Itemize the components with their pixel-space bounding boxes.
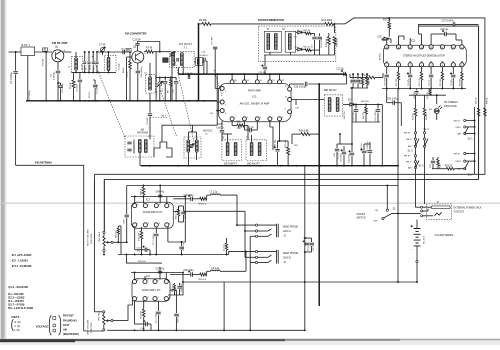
junction xyxy=(134,329,136,331)
svg-text:R18 10k: R18 10k xyxy=(362,75,371,77)
svg-text:R43 1.8: R43 1.8 xyxy=(172,285,174,292)
capacitor C20 xyxy=(305,82,307,86)
wire xyxy=(269,121,271,127)
svg-text:Q1.3 --2SA1008: Q1.3 --2SA1008 xyxy=(8,285,28,289)
wire xyxy=(139,153,141,166)
svg-text:C31 47µ: C31 47µ xyxy=(408,78,410,86)
capacitor C27 xyxy=(453,22,455,26)
junction xyxy=(158,329,160,331)
mid line xyxy=(71,71,116,73)
wire xyxy=(223,282,225,330)
svg-text:C14 10P: C14 10P xyxy=(147,117,149,125)
svg-text:FM D: FM D xyxy=(406,139,412,141)
volume VR1 xyxy=(103,231,105,233)
svg-text:S1-4: S1-4 xyxy=(424,128,430,131)
svg-text:ON/OFF: ON/OFF xyxy=(357,214,366,216)
vertical audio input xyxy=(126,186,128,215)
junction xyxy=(108,100,110,102)
resistor R26 xyxy=(365,104,367,107)
wire xyxy=(9,51,22,53)
resistor R11 xyxy=(305,32,312,35)
junction xyxy=(188,165,190,167)
svg-text:0.001µ: 0.001µ xyxy=(216,128,224,130)
IC2 pin top 11 xyxy=(440,45,444,49)
svg-text:C26 1µ: C26 1µ xyxy=(440,28,448,31)
vertical from loopB xyxy=(103,179,105,230)
resistor R10 xyxy=(325,22,334,25)
svg-text:R36 100: R36 100 xyxy=(138,232,140,241)
capacitor C46 xyxy=(336,144,338,148)
switch S1-1 contacts xyxy=(464,119,466,121)
wire xyxy=(236,195,238,225)
capacitor C51 xyxy=(155,227,157,233)
IC1 pin left 3 xyxy=(220,109,224,113)
svg-text:FM CONVERTER: FM CONVERTER xyxy=(125,32,147,36)
resistor R06 xyxy=(237,124,244,127)
svg-text:R24 390: R24 390 xyxy=(460,79,462,86)
capacitor C59 xyxy=(191,272,193,276)
IC1 pin top 13 xyxy=(268,80,272,84)
wire S1 common xyxy=(474,107,476,174)
svg-text:C51 0.0056µ: C51 0.0056µ xyxy=(153,233,155,245)
svg-text:C8 7P: C8 7P xyxy=(90,64,92,70)
junction xyxy=(280,165,282,167)
svg-text:C47 47µ: C47 47µ xyxy=(361,143,363,151)
junction xyxy=(441,88,443,90)
svg-text:R41 100: R41 100 xyxy=(141,310,143,319)
junction xyxy=(94,100,96,102)
IC4 pin top 7 xyxy=(143,280,147,284)
heavy vertical R9 drop xyxy=(198,24,200,101)
bandpass filter B.P.F.1 xyxy=(21,47,35,56)
junction xyxy=(159,100,161,102)
IC3 pin top 5 xyxy=(165,204,169,208)
wire xyxy=(63,51,72,53)
svg-text:L9 2.2µ: L9 2.2µ xyxy=(223,243,225,251)
capacitor C48 xyxy=(158,195,162,197)
svg-text:R42 560: R42 560 xyxy=(116,230,118,238)
IC3 pin top 8 xyxy=(133,204,137,208)
capacitor C45 xyxy=(369,142,371,150)
wire xyxy=(84,330,104,332)
svg-text:AM: AM xyxy=(408,167,411,170)
svg-text:LEFT VOLUME: LEFT VOLUME xyxy=(88,319,90,335)
wire xyxy=(245,252,247,272)
svg-text:FM RF AMP: FM RF AMP xyxy=(52,41,68,45)
capacitor C28 xyxy=(221,121,223,130)
capacitor C8 xyxy=(92,52,94,61)
IC4 pin bottom 2 xyxy=(143,297,147,301)
junction xyxy=(155,100,157,102)
junction xyxy=(88,100,90,102)
svg-text:10: 10 xyxy=(452,47,454,49)
junction xyxy=(386,88,388,90)
svg-text:D1---KB-905: D1---KB-905 xyxy=(8,292,24,296)
capacitor C15 xyxy=(188,75,190,79)
resistor R31 xyxy=(415,95,417,108)
junction xyxy=(155,254,157,256)
diode D3 xyxy=(350,103,354,106)
svg-text:C9 0.039µ: C9 0.039µ xyxy=(97,84,99,94)
svg-text:AM OSC ,MIXER ,IF AMP: AM OSC ,MIXER ,IF AMP xyxy=(240,102,270,106)
svg-text:0.015µ: 0.015µ xyxy=(338,152,340,159)
svg-text:(WHATEVER): (WHATEVER) xyxy=(63,333,79,336)
svg-text:CONTROL: CONTROL xyxy=(91,233,93,244)
IC2 pin top 9 xyxy=(460,45,464,49)
svg-text:R22 2.2k: R22 2.2k xyxy=(419,78,421,86)
wire xyxy=(166,197,168,204)
junction xyxy=(45,100,47,102)
junction xyxy=(149,100,151,102)
IC2 pin bottom 1 xyxy=(385,63,389,67)
svg-text:FM ST: FM ST xyxy=(454,120,461,122)
svg-text:R09 56k: R09 56k xyxy=(361,101,370,103)
wire xyxy=(346,73,347,75)
junction xyxy=(336,165,338,167)
svg-text:FM ANTENNA: FM ANTENNA xyxy=(35,161,52,165)
resistor R7 xyxy=(146,50,154,53)
svg-text:FM D: FM D xyxy=(456,127,462,129)
junction xyxy=(92,100,94,102)
junction xyxy=(57,100,59,102)
wire xyxy=(409,38,411,45)
svg-text:R38 5.6: R38 5.6 xyxy=(199,203,207,205)
svg-text:D2.3---1S953: D2.3---1S953 xyxy=(8,296,25,300)
svg-text:S1-1: S1-1 xyxy=(468,138,474,141)
svg-text:C4 7P: C4 7P xyxy=(81,64,83,70)
svg-text:S1-3: S1-3 xyxy=(408,150,414,153)
power jack plug xyxy=(431,206,450,209)
svg-text:R34 1k: R34 1k xyxy=(476,96,478,104)
transistor Q1 xyxy=(52,50,64,62)
IC3 body xyxy=(132,202,174,228)
resistor R30 xyxy=(143,186,145,188)
resistor R33b xyxy=(424,95,426,108)
junction xyxy=(188,100,190,102)
audio L ground bus xyxy=(107,329,305,331)
wire xyxy=(45,52,47,101)
capacitor C10 xyxy=(123,50,125,54)
capacitor C18 xyxy=(319,33,321,36)
svg-text:AM: AM xyxy=(408,145,411,148)
IC2 pin bottom 8 xyxy=(460,63,464,67)
svg-text:C56 0.1µ: C56 0.1µ xyxy=(313,242,315,251)
junction xyxy=(164,100,166,102)
IC1 pin bottom 4 xyxy=(230,117,234,121)
tuning gang dashed link xyxy=(214,70,222,96)
svg-text:3RD AM IFT: 3RD AM IFT xyxy=(324,89,338,92)
svg-text:C48 100µ: C48 100µ xyxy=(349,153,351,163)
svg-text:R5 100: R5 100 xyxy=(70,81,72,89)
IC1 pin right 11 xyxy=(288,87,292,91)
switch S2 xyxy=(386,209,388,211)
tuning gang dashed link xyxy=(160,88,177,136)
junction xyxy=(137,100,139,102)
wire xyxy=(27,56,29,101)
capacitor C36 33u xyxy=(277,141,279,149)
svg-text:EXTERNAL POWER JACK: EXTERNAL POWER JACK xyxy=(454,206,482,209)
IC4 body xyxy=(132,279,170,302)
wire xyxy=(131,272,183,274)
resistor R05 xyxy=(446,167,454,170)
junction xyxy=(409,88,411,90)
capacitor C55 xyxy=(305,243,309,245)
wire xyxy=(97,51,132,53)
resistor R38 xyxy=(200,197,207,200)
IC4 pin top 6 xyxy=(153,280,157,284)
capacitor C33 xyxy=(452,67,454,74)
svg-text:C20 0.001µ: C20 0.001µ xyxy=(294,86,307,88)
IC1 pin bottom 5 xyxy=(242,117,246,121)
svg-text:15: 15 xyxy=(397,47,399,49)
svg-text:R11 1k: R11 1k xyxy=(304,30,312,32)
IC4 pin bottom 4 xyxy=(164,297,168,301)
svg-text:R06: R06 xyxy=(236,122,241,124)
svg-text:JACK B: JACK B xyxy=(283,256,292,259)
inductor L4 box xyxy=(146,75,156,93)
resistor R17 xyxy=(388,18,390,22)
wire xyxy=(188,152,190,166)
transistor Q2 xyxy=(132,51,144,63)
svg-text:HEAD PHONE: HEAD PHONE xyxy=(283,225,299,228)
capacitor C58 xyxy=(175,296,177,313)
capacitor C31 xyxy=(409,67,411,74)
wire C20 line xyxy=(290,83,304,85)
svg-text:R28 6.8k: R28 6.8k xyxy=(299,130,309,133)
IC1 pin top 16 xyxy=(230,80,234,84)
junction xyxy=(343,165,345,167)
svg-text:C45 0.0033µ: C45 0.0033µ xyxy=(367,141,369,153)
junction xyxy=(304,165,306,167)
svg-text:R23 390: R23 390 xyxy=(440,79,442,86)
svg-text:R17 1k: R17 1k xyxy=(383,19,391,22)
IC2 pin top 12 xyxy=(429,45,433,49)
svg-text:OFF: OFF xyxy=(373,221,378,223)
svg-text:C?47: C?47 xyxy=(124,219,126,224)
capacitor C17t xyxy=(213,47,217,49)
capacitor C1 xyxy=(13,72,17,74)
junction xyxy=(141,254,143,256)
svg-text:AUDIO AMP L.CH: AUDIO AMP L.CH xyxy=(142,289,161,292)
wire xyxy=(345,18,354,24)
trimmer CT3 xyxy=(171,52,174,55)
resistor R20 xyxy=(366,74,368,78)
junction xyxy=(430,88,432,90)
main bus xyxy=(141,165,399,167)
svg-text:FM D: FM D xyxy=(406,162,412,164)
resistor R12 xyxy=(305,49,312,52)
svg-text:C59 100µ: C59 100µ xyxy=(184,270,195,272)
capacitor C49 xyxy=(191,197,193,201)
capacitor C63 xyxy=(179,283,181,286)
svg-text:C25: C25 xyxy=(378,37,383,39)
svg-text:FM D: FM D xyxy=(456,161,462,163)
switch S1-5 contacts xyxy=(414,155,416,157)
transformer T6 3rd AM IFT xyxy=(324,95,342,116)
feedback wire xyxy=(168,197,185,243)
IC2 pin bottom 3 xyxy=(408,63,412,67)
capacitor C43 xyxy=(432,157,434,160)
IC2 body xyxy=(383,45,466,66)
svg-text:RIGHT VOLUME: RIGHT VOLUME xyxy=(88,229,90,246)
capacitor C6b xyxy=(79,72,81,79)
volume VR2 xyxy=(103,311,105,313)
wire xyxy=(416,260,418,262)
IC1 pin top 15 xyxy=(242,80,246,84)
svg-text:R40 5.6: R40 5.6 xyxy=(199,279,207,281)
svg-text:4.5VOLTS: 4.5VOLTS xyxy=(454,212,465,214)
svg-text:C36 33µ: C36 33µ xyxy=(274,139,276,148)
svg-text:AUDIO AMP R.CH: AUDIO AMP R.CH xyxy=(143,211,163,214)
junction xyxy=(96,100,98,102)
wire xyxy=(131,51,133,53)
svg-text:L3 1µF: L3 1µF xyxy=(119,62,121,70)
resistor R41 xyxy=(143,301,145,309)
junction xyxy=(397,212,399,214)
wire xyxy=(94,311,102,313)
capacitor C56 xyxy=(311,238,313,242)
wire xyxy=(134,273,136,280)
AM shield outline xyxy=(162,125,215,142)
junction xyxy=(288,165,290,167)
svg-text:FM DISCRIMINATOR: FM DISCRIMINATOR xyxy=(258,18,284,22)
capacitor C16 xyxy=(204,58,206,62)
svg-text:FAST: FAST xyxy=(63,324,70,327)
svg-text:9: 9 xyxy=(461,47,462,49)
junction xyxy=(203,100,205,102)
AM bar antenna xyxy=(125,136,154,157)
capacitor C40 xyxy=(355,104,357,108)
capacitor C44 xyxy=(351,146,353,152)
inductor L8 xyxy=(211,270,221,271)
wire xyxy=(178,67,180,74)
junction xyxy=(304,281,306,283)
svg-text:C28: C28 xyxy=(217,124,222,126)
svg-text:R27 47k: R27 47k xyxy=(285,139,287,148)
wire VR1 wiper xyxy=(113,241,127,243)
switch S1-3 contacts xyxy=(414,132,416,134)
svg-text:L8 2.2µ: L8 2.2µ xyxy=(212,268,220,270)
capacitor C47 xyxy=(363,144,365,150)
switch S1-2 contacts xyxy=(464,152,466,154)
svg-text:0.0047µ: 0.0047µ xyxy=(54,71,56,80)
junction xyxy=(84,100,86,102)
svg-text:R33 1k: R33 1k xyxy=(426,112,428,120)
capacitor C5 xyxy=(60,83,62,85)
junction xyxy=(149,254,151,256)
battery B1 xyxy=(414,229,421,246)
svg-text:C1 0.001µ: C1 0.001µ xyxy=(9,71,13,84)
svg-text:R10 680k: R10 680k xyxy=(322,19,333,22)
resistor R18 xyxy=(350,77,366,79)
junction xyxy=(397,281,399,283)
junction xyxy=(363,165,365,167)
IC1 pin left 2 xyxy=(220,100,224,104)
junction xyxy=(381,165,383,167)
IC1 pin right 10 xyxy=(288,98,292,102)
IC1 pin bottom 6 xyxy=(255,117,259,121)
IC2 pin top 14 xyxy=(408,45,412,49)
svg-text:STEREO MULTIPLEX DEMODULATOR: STEREO MULTIPLEX DEMODULATOR xyxy=(403,54,445,57)
resistor R13 xyxy=(328,33,330,37)
svg-text:R39 1.8: R39 1.8 xyxy=(176,211,178,219)
wire xyxy=(352,121,380,123)
feedback wire L xyxy=(168,273,183,296)
svg-text:C2 0.039µ: C2 0.039µ xyxy=(29,90,31,100)
svg-text:11: 11 xyxy=(441,47,443,49)
resistor R32 xyxy=(437,157,439,159)
junction xyxy=(75,100,77,102)
IC1 pin top 14 xyxy=(255,80,259,84)
capacitor C60 xyxy=(146,322,148,326)
capacitor C52 xyxy=(181,242,183,246)
svg-text:C41 0.033µ: C41 0.033µ xyxy=(375,110,377,121)
IC3 pin bottom 3 xyxy=(154,223,158,227)
IC2 pin bottom 7 xyxy=(451,63,455,67)
capacitor C4 xyxy=(84,52,86,61)
resistor R22 xyxy=(421,67,423,72)
wire xyxy=(421,34,423,45)
wire xyxy=(304,166,306,331)
svg-text:VOLTAGE: VOLTAGE xyxy=(36,324,49,328)
IC1 pin left 1 xyxy=(220,86,224,90)
svg-text:C18 0.0015µ: C18 0.0015µ xyxy=(321,36,323,48)
resistor R30 xyxy=(429,89,431,90)
transformer T5 2ND AM IFT xyxy=(246,140,267,161)
IC1 pin bottom 7 xyxy=(268,117,272,121)
svg-text:R7 46: R7 46 xyxy=(146,48,153,50)
svg-text:AM: AM xyxy=(63,329,67,332)
svg-text:0.0047µ: 0.0047µ xyxy=(200,55,209,57)
capacitor C61 xyxy=(158,301,160,311)
capacitor C26 xyxy=(445,32,447,36)
FM antenna wire xyxy=(16,165,84,331)
svg-text:INDICATOR: INDICATOR xyxy=(444,105,457,108)
wire xyxy=(337,143,352,145)
junction xyxy=(170,100,172,102)
junction xyxy=(421,88,423,90)
resistor R5 xyxy=(73,72,75,80)
svg-text:AM: AM xyxy=(458,168,461,171)
wire xyxy=(155,76,176,78)
transformer T3 xyxy=(285,31,296,52)
svg-text:R6 1k: R6 1k xyxy=(123,67,125,73)
svg-text:D5.7---2Y629: D5.7---2Y629 xyxy=(8,303,25,307)
capacitor C44b xyxy=(343,146,345,151)
heavy center vertical xyxy=(318,84,320,306)
svg-text:B.P.F. 1: B.P.F. 1 xyxy=(22,43,31,47)
wire discr bottom xyxy=(264,54,335,56)
resistor R19 xyxy=(362,74,364,78)
wire xyxy=(188,74,190,76)
capacitor C22 xyxy=(352,74,354,79)
IC3 pin bottom 2 xyxy=(143,223,147,227)
svg-text:S1-2: S1-2 xyxy=(468,173,474,176)
svg-text:R6 15k: R6 15k xyxy=(127,70,129,78)
external power jack J3 box xyxy=(426,204,451,220)
wire xyxy=(251,135,253,143)
junction xyxy=(60,100,62,102)
transformer T2 xyxy=(264,31,281,52)
svg-text:1ST FM IFT: 1ST FM IFT xyxy=(179,43,193,46)
comb bottom wire xyxy=(382,88,466,90)
svg-text:2: 2 xyxy=(398,65,399,67)
headphone jack A xyxy=(255,224,257,226)
capacitor C57 xyxy=(158,271,162,273)
IC3 pin top 7 xyxy=(143,204,147,208)
svg-text:R30 4k: R30 4k xyxy=(140,187,142,195)
wire IC4 out xyxy=(183,281,417,283)
